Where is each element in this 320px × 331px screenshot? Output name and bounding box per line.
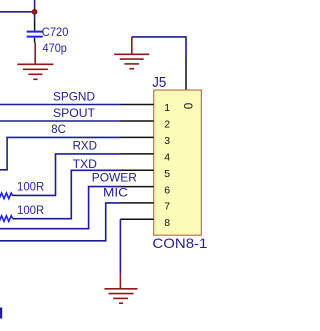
- svg-text:TXD: TXD: [73, 157, 97, 171]
- junction: [32, 9, 38, 15]
- pin 0: [185, 58, 187, 90]
- pin 3: [120, 136, 153, 138]
- wire: [185, 36, 187, 58]
- svg-text:RXD: RXD: [73, 138, 97, 152]
- svg-text:100R: 100R: [17, 203, 44, 217]
- pin 8: [120, 218, 153, 220]
- wire MIC: [0, 203, 121, 241]
- wire SPGND: [0, 104, 121, 106]
- connector J5 box: [154, 90, 202, 235]
- svg-text:J5: J5: [152, 74, 166, 91]
- pin 1: [120, 104, 153, 106]
- wire to ground: [119, 219, 121, 273]
- pin 2: [120, 120, 153, 122]
- svg-text:8: 8: [164, 217, 170, 229]
- ground: [114, 37, 149, 69]
- wire SPOUT: [0, 120, 121, 122]
- pin 5: [120, 169, 153, 171]
- ground: [105, 274, 138, 304]
- resistor R2: [0, 203, 44, 221]
- svg-text:6: 6: [164, 184, 170, 196]
- pin 4: [120, 153, 153, 155]
- svg-text:SPGND: SPGND: [53, 89, 95, 103]
- svg-text:5: 5: [164, 168, 170, 180]
- svg-text:470p: 470p: [43, 41, 68, 55]
- svg-text:7: 7: [164, 201, 170, 213]
- svg-text:8C: 8C: [51, 122, 66, 136]
- ground: [17, 43, 53, 80]
- wire: [0, 11, 35, 13]
- pin 7: [120, 202, 153, 204]
- capacitor C720: [27, 21, 69, 56]
- wire RXD: [17, 154, 121, 196]
- svg-text:MIC: MIC: [103, 186, 128, 200]
- wire POWER: [0, 187, 121, 229]
- svg-text:CON8-1: CON8-1: [152, 235, 207, 251]
- svg-text:1: 1: [164, 102, 170, 114]
- svg-text:SPOUT: SPOUT: [53, 106, 95, 120]
- wire 8C: [0, 137, 121, 169]
- wire: [34, 0, 36, 21]
- pin 6: [120, 186, 153, 188]
- wire: [132, 36, 186, 38]
- partial label at left edge: [0, 308, 2, 319]
- svg-text:C720: C720: [42, 25, 69, 39]
- svg-text:100R: 100R: [17, 180, 44, 194]
- wire TXD: [17, 170, 121, 218]
- svg-text:0: 0: [181, 103, 193, 109]
- resistor R1: [0, 180, 44, 199]
- svg-text:3: 3: [164, 135, 170, 147]
- svg-text:4: 4: [164, 152, 170, 164]
- svg-text:2: 2: [164, 119, 170, 131]
- svg-text:POWER: POWER: [92, 170, 137, 184]
